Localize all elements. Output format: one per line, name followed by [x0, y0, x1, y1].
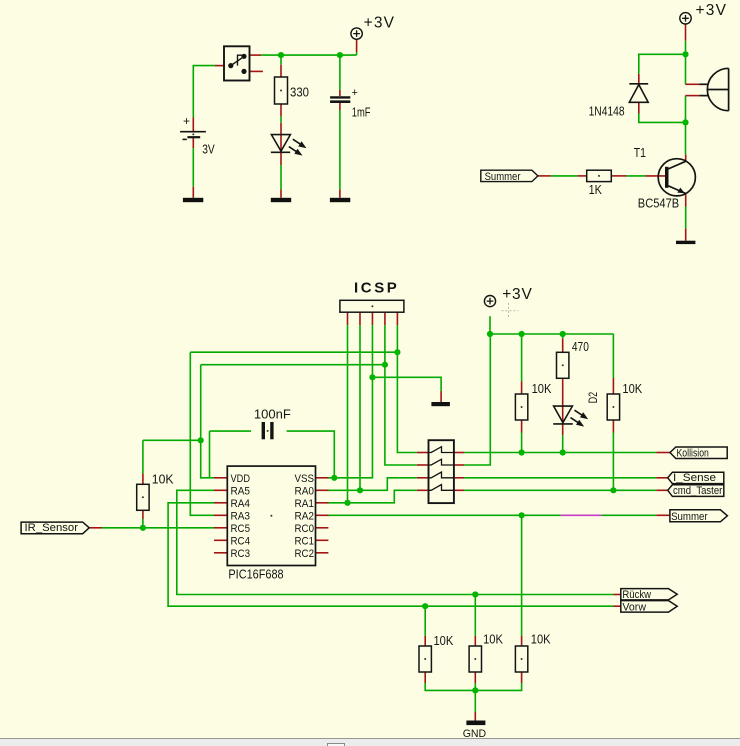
svg-text:RA1: RA1 — [295, 498, 315, 510]
svg-text:+3V: +3V — [364, 15, 396, 32]
svg-text:+3V: +3V — [502, 286, 532, 303]
svg-text:I_Sense: I_Sense — [673, 472, 716, 484]
svg-text:RA0: RA0 — [295, 485, 315, 497]
svg-text:3V: 3V — [202, 142, 215, 157]
svg-text:10K: 10K — [622, 381, 642, 396]
svg-text:RA4: RA4 — [231, 498, 251, 510]
svg-text:RC1: RC1 — [295, 535, 315, 547]
svg-text:10K: 10K — [152, 471, 174, 486]
svg-text:T1: T1 — [634, 145, 646, 160]
svg-text:Rückw: Rückw — [622, 589, 651, 601]
svg-text:VDD: VDD — [231, 473, 251, 485]
svg-text:470: 470 — [572, 339, 589, 354]
svg-text:VSS: VSS — [295, 473, 315, 485]
svg-text:RC2: RC2 — [295, 548, 315, 560]
svg-text:+: + — [352, 87, 358, 99]
svg-text:cmd_Taster: cmd_Taster — [673, 485, 723, 497]
svg-text:1mF: 1mF — [352, 104, 371, 119]
svg-text:RC5: RC5 — [231, 523, 251, 535]
svg-text:RA5: RA5 — [231, 485, 251, 497]
svg-text:10K: 10K — [531, 632, 551, 647]
svg-text:RC4: RC4 — [231, 535, 251, 547]
svg-text:1N4148: 1N4148 — [589, 103, 625, 118]
svg-text:Kollision: Kollision — [677, 448, 709, 460]
svg-text:ICSP: ICSP — [354, 280, 399, 297]
svg-text:100nF: 100nF — [254, 406, 291, 421]
svg-text:+: + — [183, 114, 190, 128]
svg-text:1K: 1K — [589, 182, 603, 197]
svg-text:PIC16F688: PIC16F688 — [228, 567, 283, 582]
svg-text:RA2: RA2 — [295, 510, 315, 522]
svg-text:330: 330 — [290, 85, 309, 100]
svg-text:IR_Sensor: IR_Sensor — [25, 522, 79, 534]
svg-text:Summer: Summer — [485, 171, 521, 183]
svg-text:10K: 10K — [532, 381, 552, 396]
svg-text:10K: 10K — [483, 632, 503, 647]
svg-text:10K: 10K — [434, 633, 454, 648]
svg-text:Summer: Summer — [671, 511, 708, 523]
svg-text:BC547B: BC547B — [638, 195, 679, 210]
svg-text:RC3: RC3 — [231, 548, 251, 560]
svg-text:+3V: +3V — [696, 2, 728, 19]
svg-text:RC0: RC0 — [295, 523, 315, 535]
svg-text:RA3: RA3 — [231, 510, 251, 522]
svg-text:D2: D2 — [586, 392, 600, 404]
svg-text:Vorw: Vorw — [622, 601, 646, 613]
